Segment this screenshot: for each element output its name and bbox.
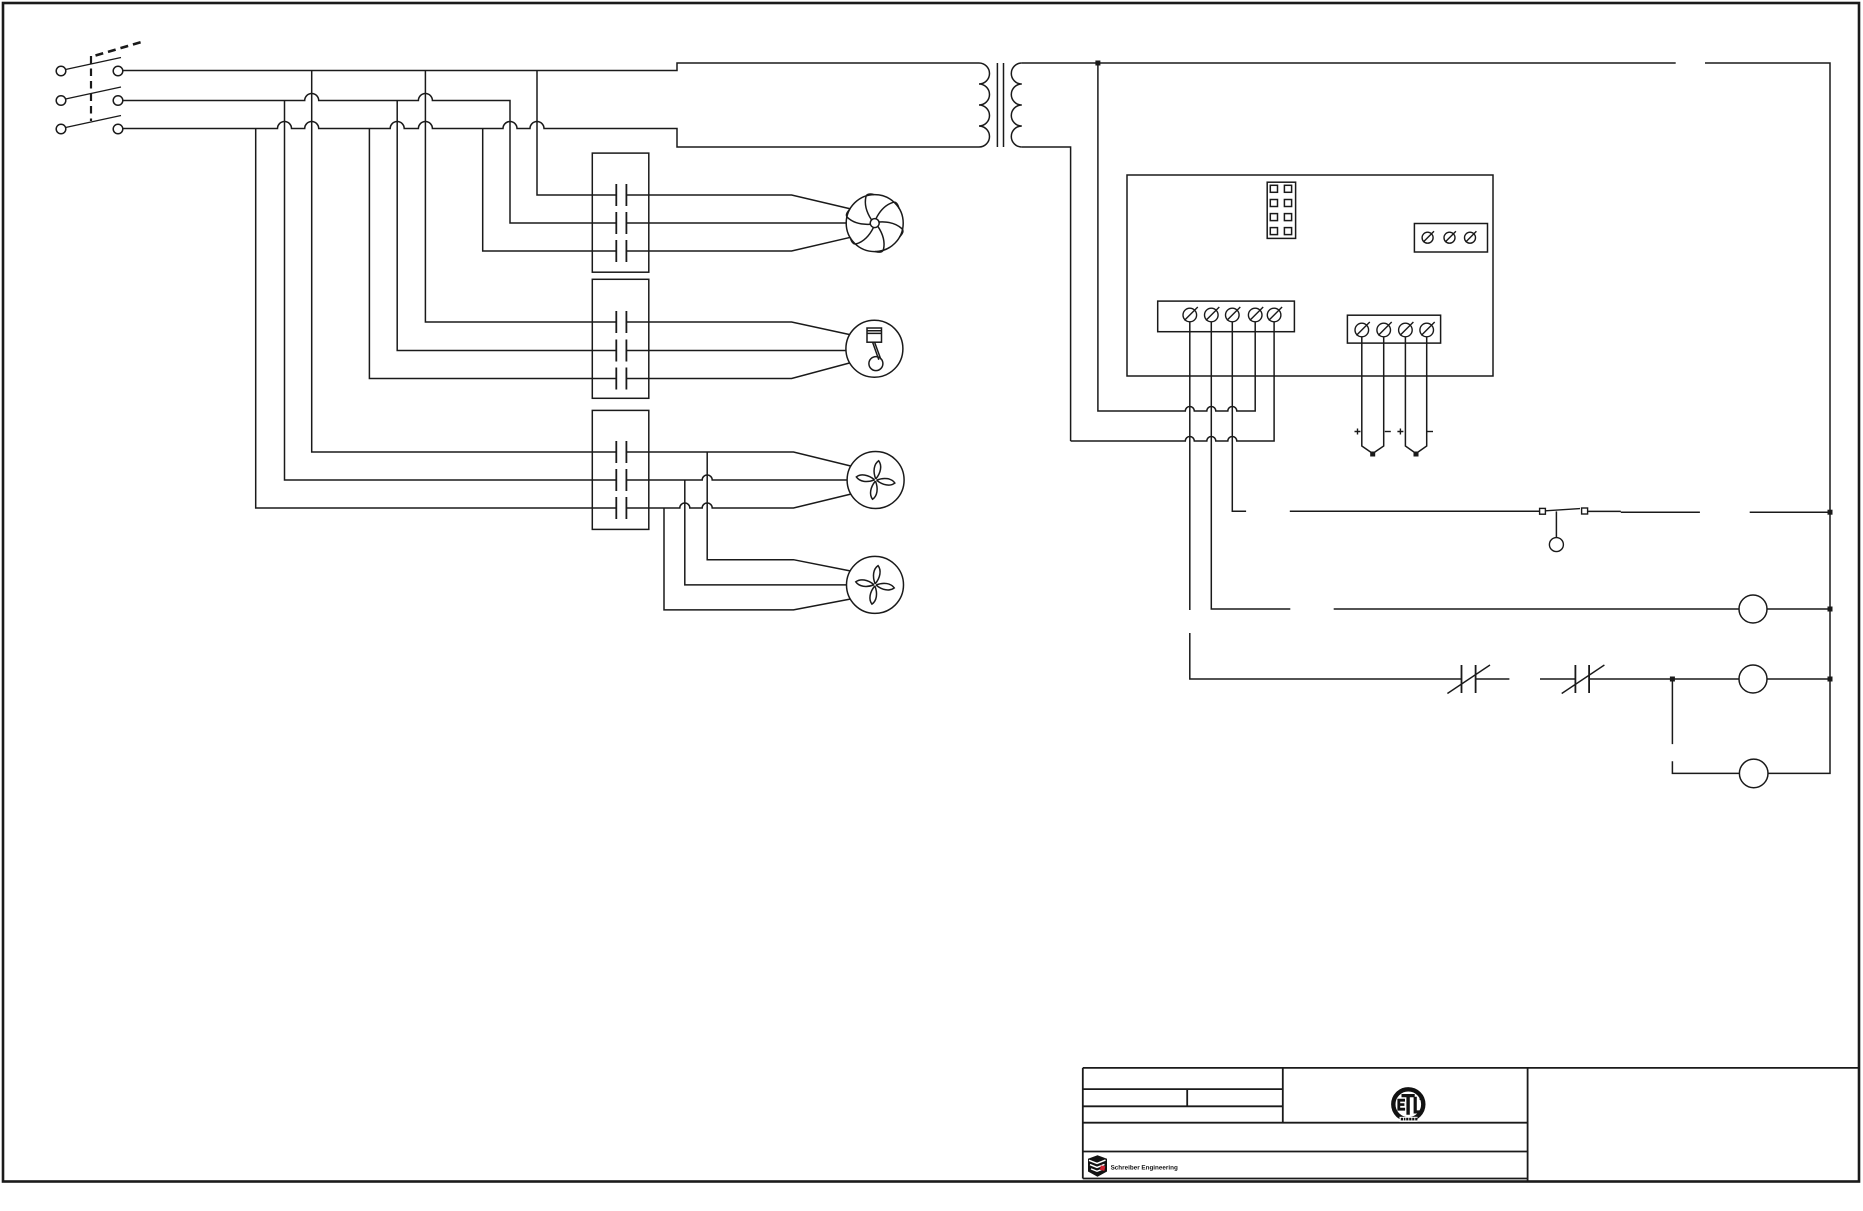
svg-text:Schreiber Engineering: Schreiber Engineering (1111, 1164, 1178, 1171)
